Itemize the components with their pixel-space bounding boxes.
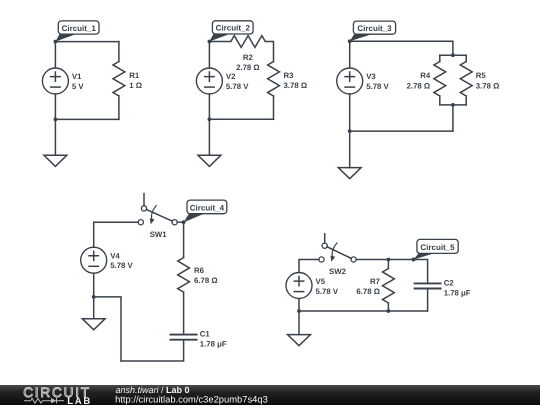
ground circuit 3 xyxy=(338,168,361,179)
capacitor C1 xyxy=(171,335,197,340)
wire R6 to C1 xyxy=(183,292,185,335)
ground circuit 1 xyxy=(44,155,67,166)
capacitor C2 xyxy=(415,283,441,288)
svg-text:5.78 V: 5.78 V xyxy=(110,261,133,270)
svg-text:3.78 Ω: 3.78 Ω xyxy=(284,81,308,90)
wire right branch down circuit 3 xyxy=(452,105,454,131)
wire V5 top lead and rail to switch xyxy=(299,260,319,273)
svg-text:6.78 Ω: 6.78 Ω xyxy=(356,287,380,296)
svg-text:1.78 μF: 1.78 μF xyxy=(444,288,471,297)
wire V3 top lead xyxy=(349,41,351,68)
svg-text:C1: C1 xyxy=(200,330,211,339)
wire V5 bottom lead xyxy=(298,299,300,312)
wire R7 bottom stub xyxy=(387,303,389,311)
wire bottom rail circuit 2 xyxy=(209,118,273,120)
svg-text:5.78 V: 5.78 V xyxy=(316,287,339,296)
node bottom circuit 1 xyxy=(54,118,58,122)
resistor R4 xyxy=(434,62,446,97)
ground circuit 5 xyxy=(288,335,311,346)
voltage source V5 xyxy=(286,273,312,299)
label Circuit_1 xyxy=(55,21,99,42)
svg-text:2.78 Ω: 2.78 Ω xyxy=(236,63,260,72)
svg-text:R7: R7 xyxy=(370,277,380,286)
svg-text:1 Ω: 1 Ω xyxy=(129,81,142,90)
resistor R2 xyxy=(231,36,265,48)
svg-text:R4: R4 xyxy=(420,71,431,80)
node parallel bottom circuit 3 xyxy=(451,103,455,107)
resistor R7 xyxy=(383,269,395,304)
svg-text:R1: R1 xyxy=(129,71,140,80)
wire top-left rail circuit 2 xyxy=(209,41,230,43)
svg-text:6.78 Ω: 6.78 Ω xyxy=(194,276,218,285)
node top circuit 1 xyxy=(54,40,58,44)
svg-text:V3: V3 xyxy=(366,72,376,81)
svg-text:SW1: SW1 xyxy=(150,230,168,239)
node top circuit 3 xyxy=(348,39,352,43)
svg-text:R6: R6 xyxy=(194,266,205,275)
svg-text:Circuit_4: Circuit_4 xyxy=(190,203,225,212)
voltage source V3 xyxy=(337,68,363,94)
label Circuit_2 xyxy=(209,21,253,42)
wire R7 top stub xyxy=(387,260,389,269)
resistor R1 xyxy=(113,62,125,97)
wire C1 bottom to corner xyxy=(121,340,184,361)
svg-text:R5: R5 xyxy=(476,71,487,80)
svg-text:V4: V4 xyxy=(110,251,120,260)
svg-text:SW2: SW2 xyxy=(329,267,347,276)
voltage source V2 xyxy=(196,68,222,94)
wire right branch top circuit 1 xyxy=(118,42,120,62)
wire bottom rail circuit 1 xyxy=(55,118,119,120)
wire R4 top stub xyxy=(439,55,441,61)
svg-text:http://circuitlab.com/c3e2pumb: http://circuitlab.com/c3e2pumb7s4q3 xyxy=(115,394,268,405)
svg-text:Circuit_2: Circuit_2 xyxy=(216,24,251,33)
wire ground lead circuit 3 xyxy=(349,131,351,168)
svg-text:R3: R3 xyxy=(284,71,295,80)
svg-text:V5: V5 xyxy=(316,277,326,286)
wire ground lead circuit 1 xyxy=(54,119,56,155)
wire parallel top bar circuit 3 xyxy=(440,54,466,56)
resistor R5 xyxy=(460,62,472,97)
ground circuit 2 xyxy=(198,155,221,166)
wire parallel bottom bar circuit 3 xyxy=(440,104,466,106)
svg-text:5.78 V: 5.78 V xyxy=(226,82,249,91)
wire R5 top stub xyxy=(465,55,467,61)
node R7 top circuit 5 xyxy=(387,258,391,262)
resistor R3 xyxy=(268,62,280,97)
node parallel top circuit 3 xyxy=(451,53,455,57)
wire V2 bottom lead xyxy=(208,94,210,119)
node bottom circuit 5 xyxy=(297,309,301,313)
wire right branch bottom circuit 2 xyxy=(273,96,275,119)
wire top rail circuit 1 xyxy=(55,41,119,43)
wire switch to node circuit 4 xyxy=(177,221,183,223)
voltage source V4 xyxy=(81,247,107,273)
logo wire-resistor-diode symbol xyxy=(24,398,64,403)
wire V2 top lead xyxy=(208,42,210,69)
label Circuit_3 xyxy=(350,21,396,41)
node bottom circuit 3 xyxy=(348,129,352,133)
wire ground lead circuit 5 xyxy=(298,311,300,335)
wire V4 bottom lead xyxy=(93,273,95,297)
wire top rail circuit 3 xyxy=(350,41,453,55)
svg-text:C2: C2 xyxy=(444,279,455,288)
wire V1 bottom lead xyxy=(54,94,56,119)
wire top-right rail circuit 2 xyxy=(265,42,273,62)
node R7 bottom circuit 5 xyxy=(387,309,391,313)
schematic text labels xyxy=(72,53,499,349)
voltage source V1 xyxy=(42,68,68,94)
wire bottom-left riser circuit 4 xyxy=(94,297,121,361)
svg-text:LAB: LAB xyxy=(67,396,92,405)
svg-text:Circuit_5: Circuit_5 xyxy=(420,243,455,252)
wire R5 bottom stub xyxy=(465,96,467,105)
svg-text:Circuit_3: Circuit_3 xyxy=(357,24,392,33)
wire V1 top lead xyxy=(54,42,56,68)
switch SW1 xyxy=(138,194,177,225)
wire bottom rail circuit 5 xyxy=(299,310,428,312)
label Circuit_4 xyxy=(184,200,227,222)
svg-text:R2: R2 xyxy=(243,53,254,62)
svg-text:5.78 V: 5.78 V xyxy=(366,82,389,91)
wire ground lead circuit 4 xyxy=(93,297,95,319)
node bottom circuit 2 xyxy=(208,117,212,121)
wire V4 top lead and rail to switch xyxy=(94,222,139,247)
wire bottom rail circuit 3 xyxy=(350,130,453,132)
node bottom circuit 4 xyxy=(92,295,96,299)
ground circuit 4 xyxy=(82,319,105,330)
resistor R6 xyxy=(178,258,190,293)
wire node down to R6 xyxy=(183,222,185,257)
wire right branch bottom circuit 1 xyxy=(118,96,120,119)
svg-text:3.78 Ω: 3.78 Ω xyxy=(476,81,500,90)
switch SW2 xyxy=(319,234,356,262)
wire V3 bottom lead xyxy=(349,94,351,131)
label Circuit_5 xyxy=(412,239,459,261)
wire R4 bottom stub xyxy=(439,96,441,105)
wire ground lead circuit 2 xyxy=(208,119,210,155)
svg-text:V1: V1 xyxy=(72,72,82,81)
svg-text:1.78 μF: 1.78 μF xyxy=(200,340,227,349)
node after switch circuit 4 xyxy=(182,220,186,224)
node top circuit 2 xyxy=(208,40,212,44)
wire C2 bottom lead xyxy=(427,289,429,312)
svg-text:Circuit_1: Circuit_1 xyxy=(62,24,97,33)
svg-text:5 V: 5 V xyxy=(72,82,85,91)
wire switch to C2 rail circuit 5 xyxy=(356,260,427,284)
svg-text:2.78 Ω: 2.78 Ω xyxy=(407,81,431,90)
svg-text:V2: V2 xyxy=(226,72,236,81)
